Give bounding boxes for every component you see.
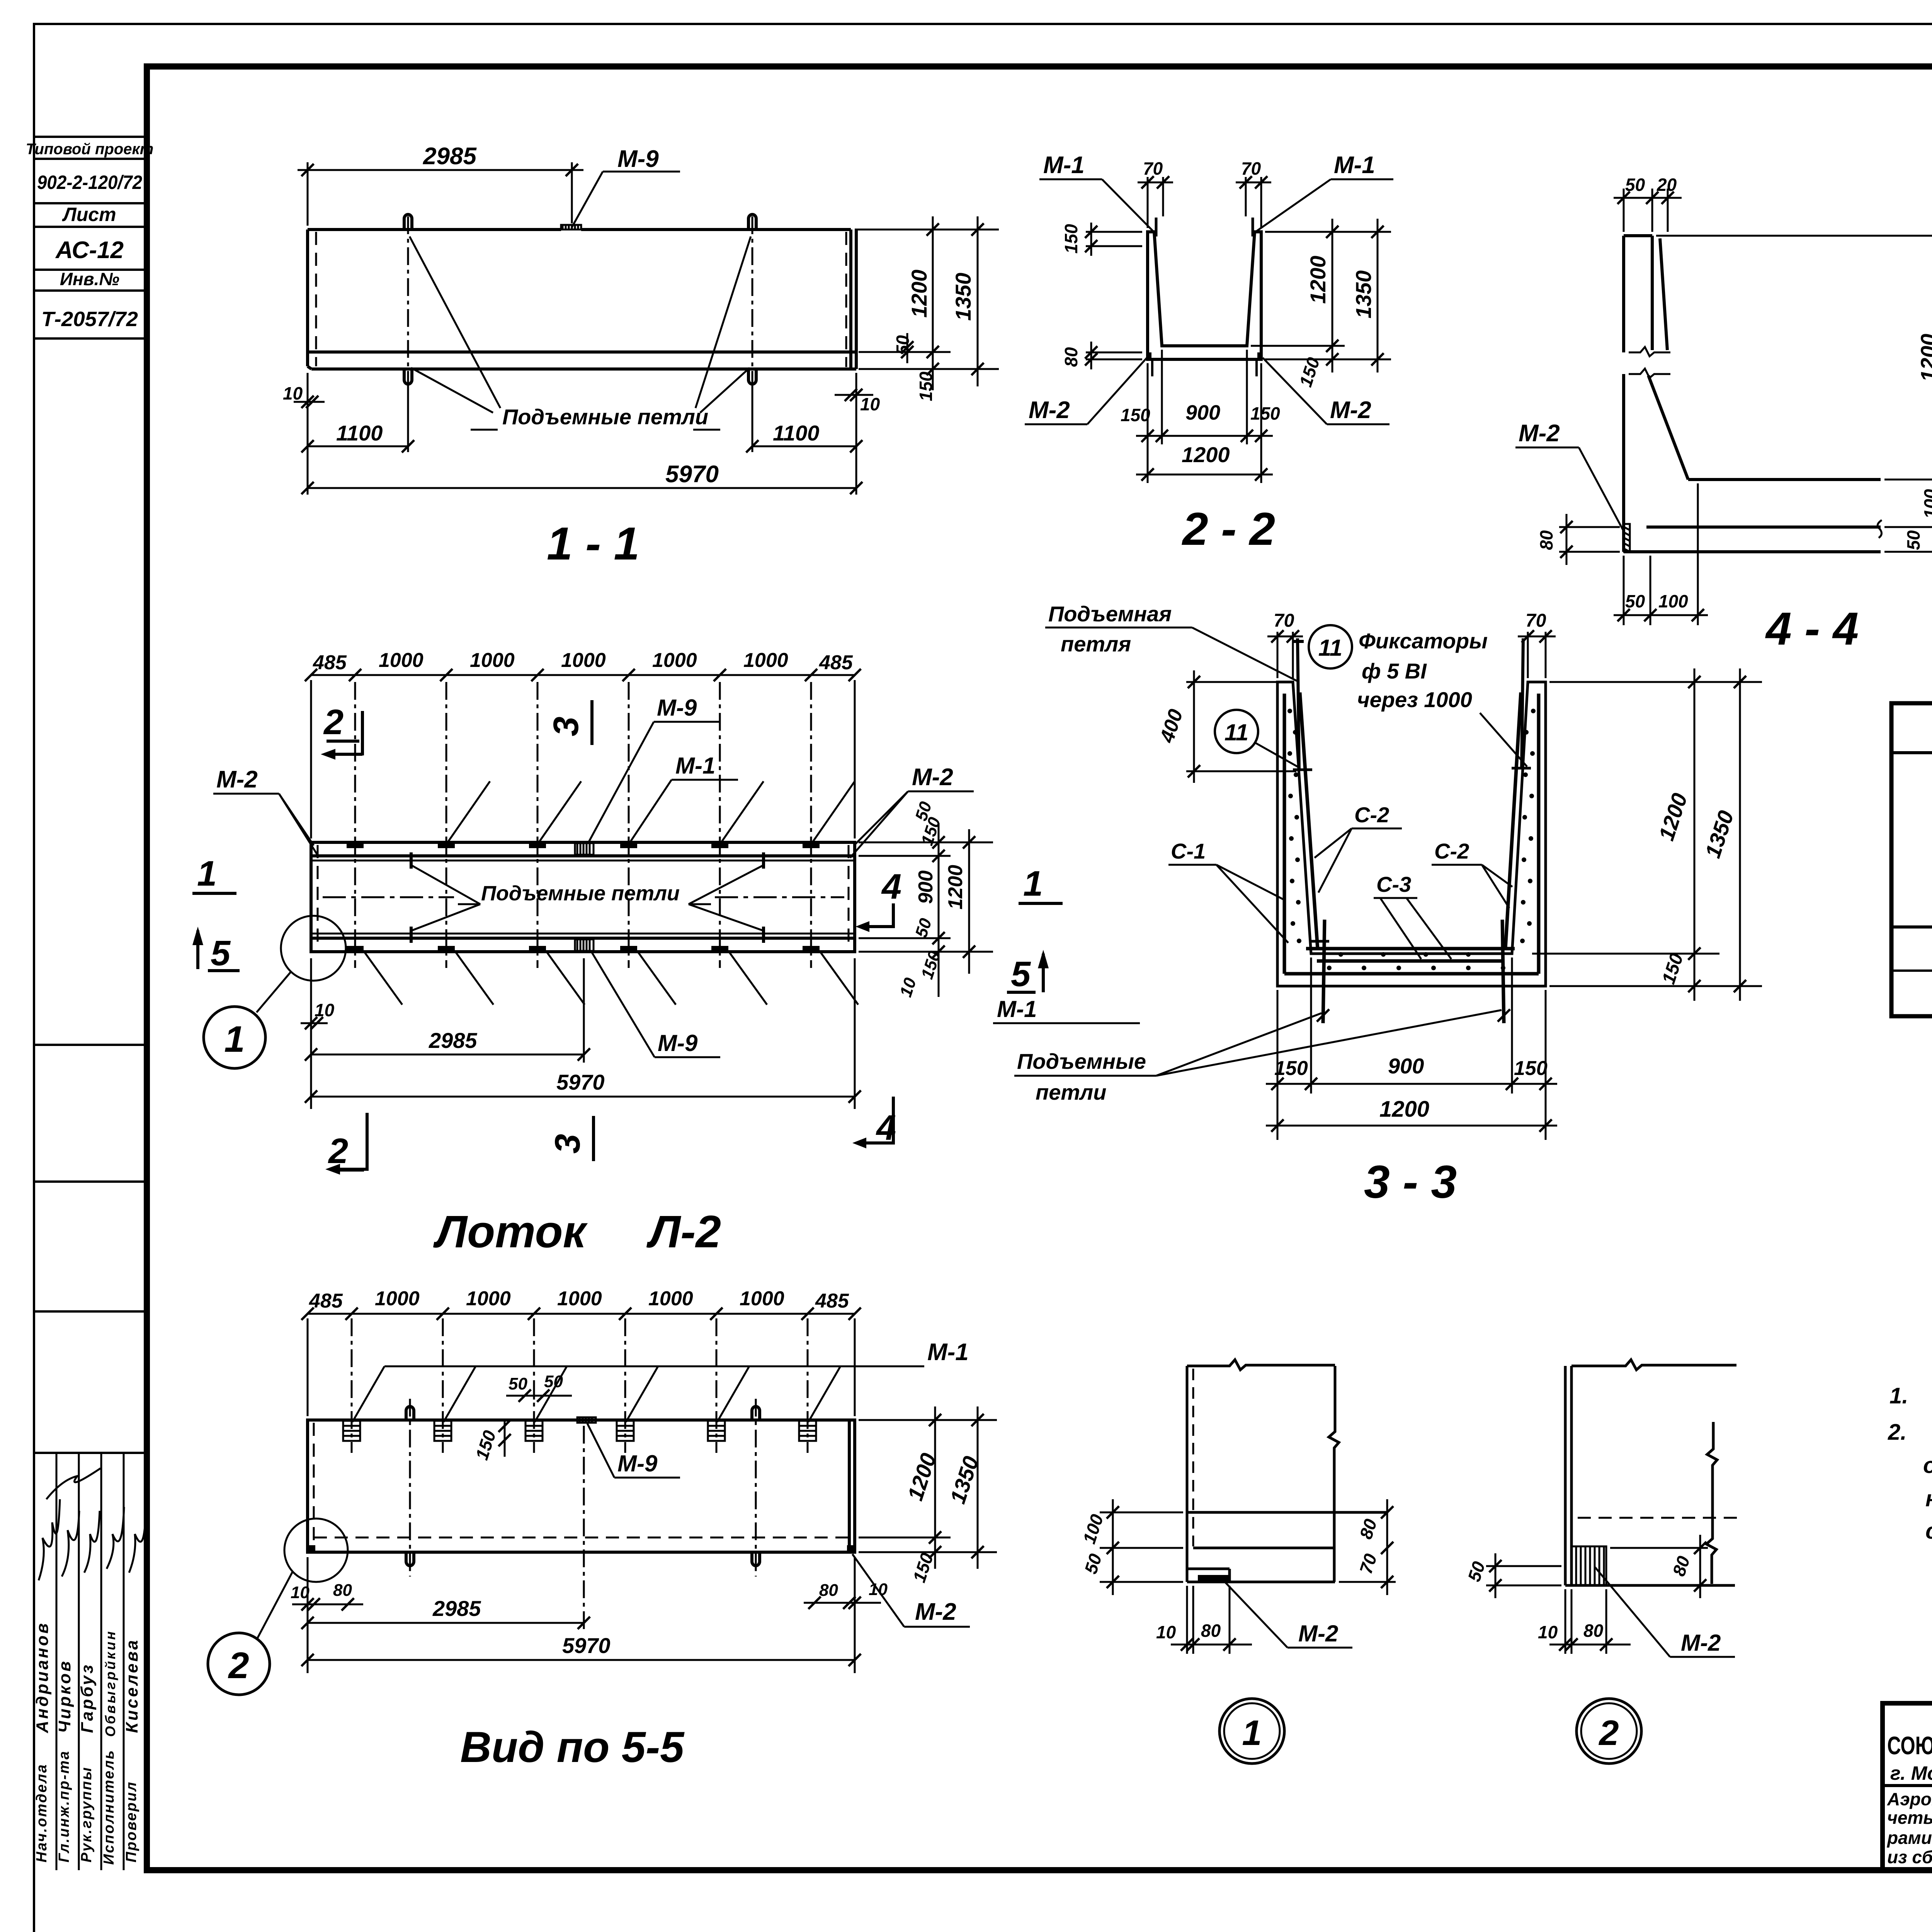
right side dims of plan	[859, 823, 993, 997]
detail bubble 1	[204, 1007, 265, 1068]
dims 50 50	[506, 1391, 572, 1400]
signer names rotated	[33, 1621, 141, 1737]
svg-text:50: 50	[1903, 530, 1923, 550]
right dim 1200 100 50	[1656, 223, 1932, 565]
bubble 2	[1577, 1699, 1641, 1764]
svg-text:5: 5	[1011, 954, 1031, 994]
svg-text:Вид по 5-5: Вид по 5-5	[460, 1723, 685, 1771]
loop centerlines	[408, 216, 752, 383]
right dims 80 70	[1339, 1499, 1396, 1595]
dim 5970	[311, 958, 855, 1109]
signatures squiggles	[39, 1468, 146, 1580]
dim 1100 right	[752, 373, 856, 495]
svg-text:Андрианов: Андрианов	[33, 1621, 52, 1733]
M-1 embed ticks at wall tops	[1156, 218, 1253, 236]
bottom dims 50 100	[1614, 483, 1708, 625]
svg-text:1000: 1000	[466, 1287, 511, 1310]
svg-text:1200: 1200	[1306, 256, 1330, 304]
floor break mark	[1878, 520, 1882, 538]
dim 5970	[308, 487, 856, 489]
svg-text:1350: 1350	[951, 273, 975, 321]
dim 70 top right	[1518, 632, 1556, 678]
notes	[1888, 1322, 1932, 1544]
svg-text:1. Защитный слой бето: 1. Защитный слой бетона - 20мм	[1889, 1383, 1932, 1408]
table: steel selection per element	[1891, 703, 1932, 1016]
bottom dim 1200	[1136, 474, 1273, 476]
svg-text:70: 70	[1241, 158, 1261, 179]
dim 5970	[308, 1557, 855, 1673]
svg-text:485: 485	[815, 1290, 849, 1312]
top dim row 485+5x1000+485	[311, 675, 855, 838]
role names rotated	[34, 1749, 139, 1865]
M-9 hatched plate top	[575, 843, 594, 855]
svg-text:1200: 1200	[1916, 334, 1932, 382]
dim 80 left bottom	[1086, 342, 1142, 369]
svg-text:рами коридора 9×5,2×120: рами коридора 9×5,2×120	[1886, 1828, 1932, 1848]
section 3-3 with reinforcement	[1014, 602, 1762, 1208]
svg-text:1000: 1000	[740, 1287, 784, 1310]
svg-text:С-3: С-3	[1376, 872, 1411, 896]
svg-text:10: 10	[315, 1000, 335, 1020]
svg-text:АС-12: АС-12	[55, 237, 124, 264]
centerlines	[352, 1318, 808, 1577]
M-9 notch on top edge	[561, 225, 581, 230]
svg-text:80: 80	[1355, 1516, 1381, 1541]
svg-text:80: 80	[333, 1581, 352, 1600]
svg-text:1000: 1000	[648, 1287, 693, 1310]
svg-text:10: 10	[283, 383, 303, 403]
right dims 1200 150 1350	[1532, 668, 1762, 1001]
svg-text:150: 150	[1250, 403, 1280, 423]
left dim 50	[1486, 1553, 1561, 1598]
C-1 outer mesh left wall	[1284, 694, 1539, 974]
fixator bubble 11 upper	[1309, 625, 1352, 668]
svg-text:902-2-120/72: 902-2-120/72	[37, 172, 142, 193]
svg-text:150: 150	[1658, 951, 1687, 987]
svg-text:Л-2: Л-2	[646, 1206, 721, 1257]
section 4-4	[1515, 175, 1932, 655]
svg-text:10: 10	[896, 975, 920, 999]
svg-text:80: 80	[1061, 347, 1081, 367]
svg-text:Лист: Лист	[62, 204, 116, 225]
C-2 inner mesh walls	[1300, 692, 1521, 949]
svg-text:2. Подъем лотка за: 2. Подъем лотка за верхние петли	[1888, 1420, 1932, 1445]
svg-text:485: 485	[313, 651, 347, 674]
svg-text:1000: 1000	[375, 1287, 420, 1310]
right dim 80	[1610, 1535, 1708, 1598]
svg-text:5970: 5970	[556, 1070, 605, 1094]
svg-text:М-1: М-1	[675, 753, 715, 779]
svg-text:70: 70	[1143, 158, 1163, 179]
plan longitudinal axis	[323, 896, 844, 898]
svg-text:50: 50	[893, 335, 913, 355]
dim 10 right bottom	[835, 394, 873, 396]
svg-text:100: 100	[1920, 489, 1932, 519]
svg-text:из сборного железобетона: из сборного железобетона	[1887, 1847, 1932, 1867]
lifting loop bars bottom	[1323, 920, 1504, 1023]
svg-text:80: 80	[1668, 1553, 1694, 1578]
svg-text:150: 150	[918, 949, 944, 981]
svg-text:петли: петли	[1036, 1080, 1106, 1104]
svg-text:11: 11	[1318, 635, 1342, 661]
svg-text:80: 80	[1536, 530, 1556, 550]
detail circle left	[284, 1519, 348, 1582]
svg-text:3 - 3: 3 - 3	[1364, 1156, 1457, 1208]
dim 400 left	[1186, 670, 1296, 783]
svg-text:четырехкоридорные с разме-: четырехкоридорные с разме-	[1887, 1808, 1932, 1828]
svg-text:50: 50	[1625, 175, 1645, 195]
svg-text:4: 4	[881, 867, 901, 906]
bottom dims 150 900 150	[1136, 350, 1273, 483]
svg-text:стенки лотка.: стенки лотка.	[1925, 1519, 1932, 1544]
lifting loop bottom right	[748, 369, 756, 384]
svg-text:2: 2	[323, 702, 344, 742]
svg-text:Аэротенки-смесители: Аэротенки-смесители	[1887, 1789, 1932, 1809]
svg-text:Гл.инж.пр-та: Гл.инж.пр-та	[56, 1750, 72, 1862]
svg-text:2: 2	[1598, 1713, 1619, 1753]
svg-text:150: 150	[1121, 405, 1150, 425]
right side dims 1200 1350	[855, 216, 999, 390]
lifting loops	[406, 1406, 414, 1420]
M-2 hatched plate on wall base	[1624, 524, 1630, 552]
title block	[1883, 1703, 1932, 1913]
dim 2985 top	[298, 162, 583, 226]
svg-text:Лоток: Лоток	[433, 1206, 588, 1257]
svg-text:М-1: М-1	[1043, 152, 1085, 179]
svg-text:М-9: М-9	[657, 695, 697, 721]
M-9 hatched plate bottom	[575, 939, 594, 951]
plan view Lotok L-2	[192, 649, 1140, 1257]
svg-text:1200: 1200	[944, 865, 967, 910]
label M-9	[572, 172, 680, 227]
right dims 1200 1350 150	[859, 1406, 997, 1569]
view 1-1 side elevation	[283, 143, 999, 570]
break squiggles in wall	[1629, 347, 1670, 378]
svg-text:1200: 1200	[1379, 1097, 1429, 1122]
svg-text:Обвыгрйкин: Обвыгрйкин	[102, 1629, 118, 1737]
svg-text:1000: 1000	[743, 649, 788, 672]
dim 2985	[308, 1426, 584, 1673]
section 2-2	[1025, 152, 1393, 555]
svg-text:Подъемные петли: Подъемные петли	[481, 882, 680, 905]
svg-text:150: 150	[909, 1550, 937, 1585]
dim 50 right	[906, 333, 908, 363]
svg-text:Киселева: Киселева	[122, 1638, 141, 1733]
svg-text:100: 100	[1658, 591, 1688, 611]
section mark 5 left with up arrow	[196, 930, 199, 969]
svg-text:20: 20	[1656, 175, 1677, 195]
M-2 corner plates	[308, 1545, 315, 1552]
M-9 strip on top edge	[577, 1417, 596, 1423]
svg-text:1000: 1000	[652, 649, 697, 672]
svg-text:М-2: М-2	[1681, 1630, 1721, 1656]
detail 1	[1079, 1360, 1396, 1764]
view 5-5 bottom elevation	[208, 1287, 997, 1771]
centerlines through embeds	[355, 682, 811, 968]
wall upper part	[1624, 236, 1667, 552]
svg-text:11: 11	[1225, 719, 1248, 745]
plan body	[311, 842, 855, 952]
svg-text:СОЮЗВОДОКАНАЛПРОЕКТ: СОЮЗВОДОКАНАЛПРОЕКТ	[1887, 1731, 1932, 1760]
concrete outline	[1277, 682, 1546, 986]
svg-text:Исполнитель: Исполнитель	[101, 1749, 117, 1865]
svg-text:Проверил: Проверил	[123, 1781, 139, 1862]
svg-text:1000: 1000	[557, 1287, 602, 1310]
svg-text:5970: 5970	[562, 1633, 611, 1658]
lifting loop bar top left	[1292, 638, 1304, 769]
svg-text:Чирков: Чирков	[55, 1659, 74, 1733]
signature columns	[56, 1453, 124, 1870]
svg-text:Подъемные: Подъемные	[1017, 1049, 1146, 1073]
left dim 80	[1559, 514, 1620, 565]
M-2 hatched plate detail2	[1571, 1546, 1606, 1585]
svg-text:ф 5 ВІ: ф 5 ВІ	[1362, 659, 1427, 683]
svg-text:Типовой проект: Типовой проект	[26, 141, 154, 158]
rebar dots	[1287, 709, 1536, 970]
C-3 floor mesh	[1317, 959, 1504, 963]
dim 150	[504, 1420, 506, 1457]
svg-text:С-2: С-2	[1354, 803, 1389, 827]
svg-text:100: 100	[1079, 1512, 1107, 1546]
svg-text:2 - 2: 2 - 2	[1182, 503, 1275, 555]
svg-text:70: 70	[1274, 611, 1294, 631]
svg-text:1: 1	[1242, 1713, 1262, 1753]
M-1 hatched plates	[343, 1421, 816, 1441]
svg-text:10: 10	[860, 394, 880, 414]
svg-text:1 - 1: 1 - 1	[547, 518, 639, 570]
svg-text:150: 150	[916, 371, 936, 401]
left dims 100 50	[1100, 1499, 1183, 1595]
lifting loop top right	[748, 214, 756, 230]
lifting loop top left	[404, 214, 412, 230]
svg-text:70: 70	[1355, 1551, 1381, 1576]
svg-text:1200: 1200	[1182, 442, 1230, 467]
svg-text:Рук.группы: Рук.группы	[78, 1766, 95, 1862]
svg-text:1: 1	[224, 1019, 245, 1060]
bottom dims 150 900 150	[1266, 957, 1557, 1140]
svg-text:М-2: М-2	[1330, 397, 1371, 423]
svg-text:70: 70	[1526, 611, 1546, 631]
top dims 50 20	[1614, 189, 1682, 232]
svg-text:1000: 1000	[561, 649, 606, 672]
svg-text:2985: 2985	[429, 1028, 477, 1053]
svg-text:М-9: М-9	[617, 1451, 658, 1476]
svg-text:Т-2057/72: Т-2057/72	[41, 308, 138, 331]
lifting loop bar top right	[1522, 638, 1523, 769]
detail circle on left end	[281, 916, 346, 981]
svg-text:150: 150	[1514, 1057, 1548, 1080]
dim 2985	[311, 958, 584, 1109]
svg-text:Подъемные петли: Подъемные петли	[502, 405, 708, 429]
svg-text:М-1: М-1	[1334, 152, 1375, 179]
svg-text:С-2: С-2	[1434, 839, 1469, 863]
svg-text:Гарбуз: Гарбуз	[78, 1663, 97, 1733]
svg-text:50: 50	[912, 916, 935, 940]
svg-text:1000: 1000	[379, 649, 423, 672]
svg-text:900: 900	[915, 871, 937, 904]
body outline	[308, 1420, 855, 1552]
lifting loops plan marks	[411, 852, 764, 943]
svg-text:3: 3	[548, 1134, 587, 1153]
svg-text:150: 150	[1061, 224, 1081, 253]
svg-text:М-1: М-1	[997, 996, 1037, 1022]
svg-text:М-2: М-2	[1029, 397, 1070, 423]
svg-text:400: 400	[1156, 706, 1187, 745]
svg-text:М-2: М-2	[912, 764, 953, 791]
svg-text:1: 1	[197, 854, 217, 893]
body outline	[308, 230, 856, 369]
svg-text:петля: петля	[1061, 632, 1131, 656]
dim 10 left bottom	[294, 401, 325, 403]
svg-text:50: 50	[1625, 591, 1645, 611]
wall lower part and floor	[1624, 376, 1881, 552]
svg-text:осуществлять специальной: осуществлять специальной траверсой	[1923, 1453, 1932, 1478]
svg-text:150: 150	[1274, 1057, 1308, 1080]
M-1 embed plates top wall	[347, 843, 820, 848]
svg-text:4 - 4: 4 - 4	[1765, 603, 1859, 655]
svg-text:2985: 2985	[423, 143, 477, 170]
fixator bubble 11 lower	[1215, 710, 1258, 753]
dim 70 left wall top	[1138, 177, 1173, 228]
leaders to lifting loops text	[410, 236, 751, 430]
svg-text:1200: 1200	[907, 270, 931, 318]
dashed inner edges	[316, 232, 846, 367]
top dim row	[308, 1314, 855, 1416]
lifting loop bottom left	[404, 369, 412, 384]
svg-text:Инв.№: Инв.№	[60, 269, 119, 289]
dim 150 left	[1086, 223, 1142, 256]
dim 70 top left	[1267, 632, 1303, 678]
svg-text:5: 5	[211, 934, 231, 973]
svg-text:485: 485	[819, 651, 853, 674]
svg-text:М-2: М-2	[1519, 420, 1560, 447]
svg-text:через 1000: через 1000	[1357, 687, 1472, 712]
svg-text:не допуская передачи: не допуская передачи распора на	[1925, 1486, 1932, 1511]
svg-text:М-1: М-1	[927, 1339, 969, 1366]
detail 2	[1464, 1360, 1739, 1764]
svg-text:50: 50	[509, 1374, 527, 1393]
svg-text:Нач.отдела: Нач.отдела	[34, 1764, 50, 1862]
svg-text:г. Москва: г. Москва	[1890, 1762, 1932, 1784]
svg-text:Подъемная: Подъемная	[1048, 602, 1172, 626]
M-2 plate detail1	[1198, 1575, 1229, 1581]
svg-text:10: 10	[1538, 1622, 1558, 1642]
svg-text:М-2: М-2	[1298, 1621, 1338, 1646]
dim 1100 left	[308, 373, 408, 495]
bottom dim 1200	[1266, 1125, 1557, 1127]
svg-text:2: 2	[228, 1645, 249, 1686]
svg-text:50: 50	[1080, 1551, 1105, 1576]
svg-text:1100: 1100	[773, 421, 819, 445]
svg-text:50: 50	[1464, 1559, 1489, 1584]
svg-text:1350: 1350	[1351, 270, 1376, 319]
svg-text:3: 3	[546, 716, 586, 736]
svg-text:150: 150	[471, 1428, 500, 1462]
svg-text:1100: 1100	[336, 421, 383, 445]
svg-text:М-9: М-9	[617, 146, 659, 172]
svg-text:900: 900	[1388, 1054, 1424, 1078]
svg-text:80: 80	[1583, 1621, 1604, 1641]
svg-text:С-1: С-1	[1171, 839, 1206, 863]
M-1 embed plates bottom wall	[347, 946, 820, 951]
left margin lower divider lines	[34, 1045, 147, 1453]
svg-text:1: 1	[1023, 864, 1043, 903]
right dims 1200 150 1350	[1251, 219, 1391, 372]
svg-text:2985: 2985	[432, 1596, 481, 1621]
U channel outline	[1148, 232, 1261, 359]
svg-text:М-9: М-9	[658, 1030, 698, 1056]
svg-text:М-2: М-2	[915, 1599, 956, 1625]
svg-text:1200: 1200	[1654, 790, 1692, 844]
svg-text:10: 10	[1156, 1622, 1176, 1642]
svg-text:900: 900	[1185, 401, 1220, 424]
svg-text:М-2: М-2	[216, 766, 258, 793]
dim 70 right wall top	[1236, 177, 1271, 228]
svg-text:1350: 1350	[1700, 808, 1738, 861]
detail bubble 2	[208, 1633, 270, 1695]
svg-text:485: 485	[309, 1290, 343, 1312]
M-2 embed plates bottom corners	[1148, 352, 1151, 359]
svg-text:80: 80	[1201, 1621, 1221, 1641]
bubble 1	[1219, 1699, 1284, 1764]
svg-text:Фиксаторы: Фиксаторы	[1359, 629, 1488, 653]
fixator ticks on walls	[1293, 768, 1531, 941]
svg-text:1000: 1000	[470, 649, 515, 672]
svg-text:5970: 5970	[665, 461, 719, 488]
left margin stamp table	[34, 137, 147, 338]
svg-text:80: 80	[819, 1581, 838, 1600]
